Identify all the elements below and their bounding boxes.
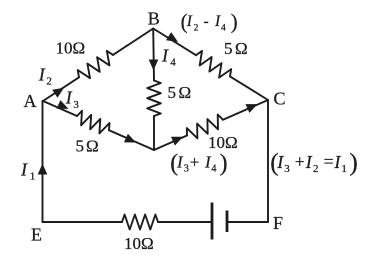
svg-text:1: 1 xyxy=(341,163,347,175)
svg-text:10Ω: 10Ω xyxy=(56,39,86,58)
svg-text:I: I xyxy=(276,152,284,172)
svg-text:I: I xyxy=(38,65,46,85)
svg-text:4: 4 xyxy=(170,57,176,69)
svg-text:4: 4 xyxy=(221,24,226,34)
svg-text:=: = xyxy=(324,152,334,172)
svg-text:F: F xyxy=(273,213,283,233)
svg-text:A: A xyxy=(24,91,37,111)
svg-text:B: B xyxy=(148,9,160,29)
svg-text:I: I xyxy=(161,45,169,65)
svg-text:C: C xyxy=(274,89,286,109)
svg-text:): ) xyxy=(349,149,357,176)
svg-text:I: I xyxy=(214,13,221,30)
svg-text:5Ω: 5Ω xyxy=(168,83,192,102)
svg-text:2: 2 xyxy=(46,76,52,88)
svg-text:10Ω: 10Ω xyxy=(208,133,238,152)
svg-text:I: I xyxy=(305,152,313,172)
svg-text:I: I xyxy=(20,159,28,179)
svg-text:3: 3 xyxy=(73,99,79,111)
svg-text:I: I xyxy=(333,152,341,172)
svg-text:I: I xyxy=(186,13,193,30)
svg-text:4: 4 xyxy=(211,164,217,175)
svg-text:+: + xyxy=(190,153,200,172)
svg-text:+: + xyxy=(295,152,305,172)
svg-text:2: 2 xyxy=(313,163,319,175)
svg-text:2: 2 xyxy=(194,24,199,34)
svg-text:I: I xyxy=(65,88,73,108)
svg-text:): ) xyxy=(231,12,238,34)
svg-text:5Ω: 5Ω xyxy=(76,136,99,155)
svg-text:1: 1 xyxy=(30,171,36,183)
svg-text:10Ω: 10Ω xyxy=(124,234,154,253)
svg-text:-: - xyxy=(204,13,209,30)
svg-text:E: E xyxy=(31,225,42,245)
svg-text:): ) xyxy=(220,151,228,177)
svg-text:3: 3 xyxy=(284,163,290,175)
svg-text:3: 3 xyxy=(184,164,189,175)
svg-text:5Ω: 5Ω xyxy=(224,39,248,58)
